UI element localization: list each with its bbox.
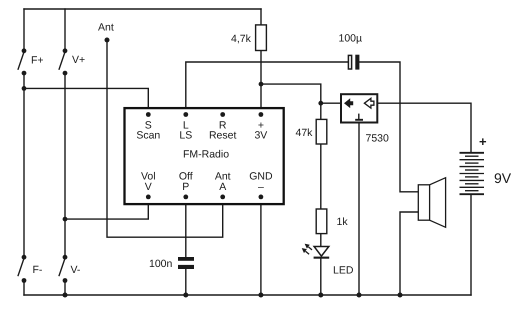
wire: antenna net from Ant terminal down, right, up to A pin <box>107 40 223 237</box>
svg-text:Scan: Scan <box>136 130 160 142</box>
LED D1 cathode bar <box>314 257 330 259</box>
svg-text:9V: 9V <box>494 170 512 186</box>
wire: LS net from L pin up and right to capacitor C1 <box>186 62 348 115</box>
svg-text:–: – <box>258 181 264 193</box>
wire: regulator U2 right output to battery plus <box>378 103 471 152</box>
wire: V+ column upper segment from top rail <box>64 9 66 51</box>
LED D1 light arrow 2 <box>303 249 310 255</box>
wire: regulator U2 left input <box>321 102 340 104</box>
svg-text:100n: 100n <box>149 258 173 270</box>
antenna terminal Ant <box>105 38 110 43</box>
wire: battery minus to ground rail <box>470 194 472 295</box>
svg-text:F+: F+ <box>31 55 44 67</box>
capacitor C2 100n plate top <box>178 257 194 261</box>
svg-text:LED: LED <box>333 265 354 277</box>
svg-text:F-: F- <box>33 264 43 276</box>
IC U1 FM-Radio body <box>125 108 284 204</box>
wire: Vol net from V chain junction to V pin <box>65 197 148 219</box>
switch S2 V+ terminals <box>63 48 68 75</box>
regulator U2 7530 body <box>341 94 377 122</box>
regulator U2 filled arrow <box>344 98 353 108</box>
wire: Scan net from F chain junction to S pin <box>24 88 148 114</box>
junction dot: ground rail at LED <box>318 293 323 298</box>
junction dot: ground rail at speaker <box>398 293 403 298</box>
svg-text:V-: V- <box>71 264 81 276</box>
svg-text:A: A <box>219 181 226 193</box>
LED D1 light arrow 1 <box>306 244 313 250</box>
svg-text:+: + <box>479 134 487 149</box>
svg-text:P: P <box>182 181 189 193</box>
resistor R2 47k body <box>316 119 327 144</box>
pin V bottom <box>146 195 151 200</box>
regulator U2 outline arrow <box>364 98 374 108</box>
pin L top <box>183 112 188 117</box>
speaker LS1 body <box>418 185 429 220</box>
capacitor C1 100u electrolytic: hollow plate <box>348 55 351 69</box>
svg-text:3V: 3V <box>254 130 267 142</box>
svg-text:V+: V+ <box>72 54 85 66</box>
pin P bottom <box>183 195 188 200</box>
pin A bottom <box>220 195 225 200</box>
capacitor C1 filled plate <box>355 55 359 70</box>
regulator U2 internal ground symbol <box>358 114 360 120</box>
switch S1 F+ blade <box>18 51 24 70</box>
svg-text:LS: LS <box>179 130 192 142</box>
wire: regulator U2 ground pin to ground rail <box>358 124 360 296</box>
wire: top supply rail from F+ switch to resistor R1 <box>24 8 261 10</box>
svg-text:4,7k: 4,7k <box>231 33 252 45</box>
svg-text:1k: 1k <box>337 216 349 228</box>
LED D1 triangle <box>314 247 329 257</box>
junction dot: Vol branch on V chain <box>63 217 68 222</box>
switch S3 F- blade <box>18 258 24 277</box>
junction dot: ground rail at GND pin <box>258 293 263 298</box>
svg-text:Reset: Reset <box>209 130 237 142</box>
svg-text:47k: 47k <box>296 127 314 139</box>
junction dot: ground rail at V- <box>63 293 68 298</box>
pin +3V top <box>259 112 264 117</box>
wire: +3V branch to R2/regulator input <box>261 84 321 119</box>
pin minus bottom <box>259 195 264 200</box>
wire: R3 bottom to LED anode <box>320 234 322 246</box>
junction dot: ground rail at regulator ground <box>357 293 362 298</box>
svg-text:7530: 7530 <box>366 133 390 145</box>
wire: bottom ground rail <box>24 294 471 296</box>
switch S2 V+ blade <box>59 51 65 70</box>
svg-text:100µ: 100µ <box>339 33 363 45</box>
junction dot: +3V branch node <box>259 82 264 87</box>
pin R top <box>220 112 225 117</box>
wire: F chain between F+ bottom and F- top <box>23 73 25 257</box>
wire: LED cathode to ground rail <box>320 258 322 295</box>
wire: C1 right plate to speaker upper terminal <box>359 62 418 192</box>
svg-text:V: V <box>145 181 152 193</box>
capacitor C2 100n plate bottom <box>178 265 194 269</box>
wire: V chain between V+ bottom and V- top <box>64 73 66 257</box>
wire: R2 bottom to R3 top <box>320 145 322 209</box>
junction dot: regulator input node <box>318 101 323 106</box>
resistor R3 1k body <box>316 209 327 234</box>
wire: capacitor C2 bottom to ground rail <box>185 269 187 295</box>
junction dot: Scan branch on F chain <box>22 86 27 91</box>
switch S4 V- blade <box>59 258 65 277</box>
wire: V- bottom to ground rail <box>64 281 66 296</box>
wire: R1 bottom to +3V pin through junction <box>260 51 262 114</box>
switch S1 F+ terminals <box>22 48 27 75</box>
svg-text:FM-Radio: FM-Radio <box>183 149 229 161</box>
switch S4 V- terminals <box>63 255 68 283</box>
speaker LS1 cone <box>430 178 446 228</box>
wire: speaker lower terminal down to ground rail <box>400 212 418 295</box>
pin S top <box>146 112 151 117</box>
wire: Off P pin down to capacitor C2 top <box>185 197 187 257</box>
switch S3 F- terminals <box>22 255 27 283</box>
wire: top rail to resistor R1 top <box>260 9 262 24</box>
wire: F+ column upper segment <box>23 9 25 51</box>
junction dot: ground rail at C2 <box>183 293 188 298</box>
wire: F- bottom to ground rail corner <box>23 281 25 296</box>
battery B1 plates <box>460 153 485 194</box>
resistor R1 4,7k body <box>256 25 267 51</box>
svg-text:Ant: Ant <box>98 22 114 34</box>
wire: GND pin down to ground rail <box>260 197 262 295</box>
